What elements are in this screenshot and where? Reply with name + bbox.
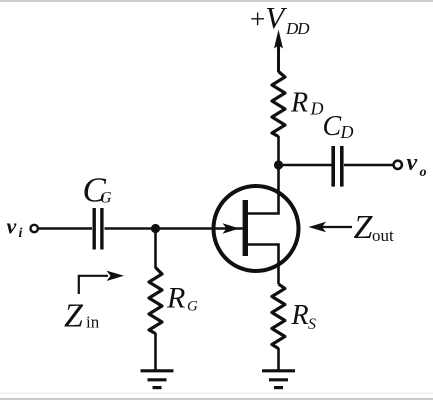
supply arrow to +VDD [274,30,283,73]
svg-text:in: in [86,313,100,332]
label CD [323,111,354,142]
resistor RG [149,268,162,334]
label +VDD [250,0,310,38]
svg-text:v: v [407,150,418,176]
JFET source lead (channel to RS) [248,245,279,285]
wire input gate line [105,227,243,230]
label RG [166,282,198,315]
capacitor CG [94,208,102,250]
svg-text:v: v [7,214,17,239]
wire drain node to CD [279,164,332,167]
svg-text:R: R [166,282,185,315]
ground symbol (below RS) [262,371,295,388]
arrow Zout (pointing left at JFET) [309,222,353,232]
svg-text:D: D [310,99,324,119]
svg-text:C: C [323,111,342,142]
svg-text:out: out [372,226,394,245]
svg-text:DD: DD [285,19,310,38]
label Zin [64,298,100,335]
wire CD to vo terminal [344,164,393,167]
svg-text:Z: Z [64,298,84,335]
wire vi terminal to CG [39,227,93,230]
label vo [407,150,427,180]
wire RD bottom to drain node and into JFET drain [248,136,279,214]
label vi [7,214,23,242]
top page border line [0,0,433,2]
svg-text:Z: Z [354,209,374,246]
wire RS to ground [277,348,280,370]
node drain junction dot [274,160,283,169]
svg-text:S: S [308,316,316,333]
svg-text:D: D [340,122,354,142]
wire RG to ground [154,333,157,370]
capacitor CD [333,146,342,187]
svg-text:G: G [100,190,112,207]
label Zout [354,209,395,246]
label RS [291,300,317,333]
svg-text:o: o [420,165,427,180]
node gate junction dot [151,224,160,233]
bottom faint rule [0,393,433,395]
wire gate node down to RG [154,229,157,269]
terminal vi circle [31,225,38,232]
svg-text:R: R [290,88,308,119]
svg-text:R: R [291,300,309,331]
label RD [290,88,324,119]
bottom page border line [0,398,433,400]
JFET gate bar [243,200,248,256]
resistor RS [272,284,285,349]
svg-text:i: i [19,226,23,241]
svg-text:G: G [187,299,198,315]
label CG [83,171,113,210]
terminal vo circle [394,161,402,169]
JFET Q1 body circle [214,186,299,271]
gate arrowhead [223,223,240,233]
arrow Zin (bent arrow pointing right) [79,271,124,294]
svg-text:+V: +V [250,0,287,35]
ground symbol (below RG) [141,371,174,388]
resistor RD [272,72,285,137]
